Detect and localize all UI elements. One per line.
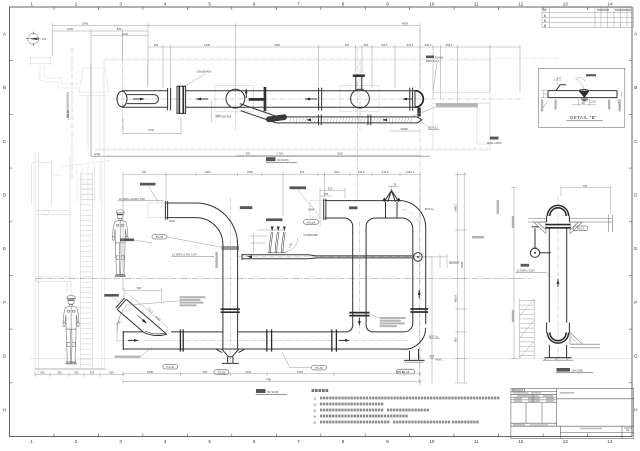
svg-text:2560: 2560 (247, 170, 253, 174)
weld leader squiggle (576, 77, 586, 89)
inclined duct dims (117, 288, 169, 342)
section top dim (561, 186, 611, 214)
flow arrows (left) (196, 98, 208, 100)
svg-text:50: 50 (582, 101, 585, 105)
left bottom dims (35, 372, 123, 376)
svg-text:5): 5) (314, 420, 317, 424)
svg-text:BOT.(L): BOT.(L) (425, 207, 434, 211)
riser circle 1 (tee down) (226, 89, 245, 108)
svg-text:8: 8 (342, 439, 345, 444)
svg-text:2: 2 (75, 2, 78, 7)
section A-A left dim line (511, 187, 517, 359)
building column lines (light) (35, 150, 104, 374)
svg-text:344.1: 344.1 (407, 43, 414, 47)
svg-text:1500: 1500 (147, 370, 153, 374)
branch stub up at circle 2 (355, 77, 357, 91)
svg-text:11: 11 (474, 439, 479, 444)
pipe body (548, 228, 550, 323)
duct A (upper left duct) (166, 202, 196, 204)
platform level line M2FL+2750 (35, 278, 530, 280)
svg-text:600: 600 (40, 371, 45, 375)
svg-text:685.6: 685.6 (397, 370, 404, 374)
PS-07 label (573, 226, 588, 231)
PS-04 label (304, 220, 319, 225)
svg-text:H: H (3, 407, 6, 412)
svg-text:1400: 1400 (204, 43, 210, 47)
svg-text:t:39x(50)4x8: t:39x(50)4x8 (196, 70, 211, 74)
svg-text:1): 1) (314, 396, 317, 400)
svg-text:1560: 1560 (297, 370, 303, 374)
svg-text:600: 600 (74, 371, 79, 375)
svg-text:(240): (240) (94, 152, 100, 156)
elevation title (256, 389, 266, 393)
svg-text:PS-06: PS-06 (315, 366, 323, 370)
svg-text:B: B (634, 85, 637, 90)
svg-text:4: 4 (164, 2, 167, 7)
section pipe centerline (557, 196, 559, 364)
svg-text:430.4: 430.4 (425, 43, 432, 47)
svg-text:630: 630 (90, 371, 95, 375)
revision table (542, 8, 634, 28)
svg-text:PS-02: PS-02 (167, 365, 175, 369)
existing equipment outline (light) plan (95, 60, 490, 150)
riser B (412, 229, 414, 324)
return flex duct (240, 104, 418, 117)
plan view title (266, 157, 276, 161)
pipe stand (548, 345, 550, 358)
M2FL level mark (430, 356, 434, 359)
flow arrow right (133, 98, 143, 100)
standpipe level label (490, 137, 499, 140)
svg-text:+786.38: +786.38 (66, 110, 70, 120)
svg-text:(S=1/20): (S=1/20) (277, 158, 289, 162)
svg-text:M2FL+2250: M2FL+2250 (487, 141, 502, 145)
labels duct A (140, 183, 156, 186)
svg-text:600: 600 (203, 370, 208, 374)
bottom elbow B (404, 323, 413, 332)
svg-text:300: 300 (154, 43, 159, 47)
D-shaped end cap (dark) (415, 91, 423, 108)
support beams top (528, 215, 613, 233)
special notes heading (312, 389, 329, 392)
duct B (upper right duct) (325, 200, 402, 202)
svg-text:685.8: 685.8 (454, 295, 458, 302)
svg-text:3): 3) (314, 408, 317, 412)
small existing pipe w/ valve (light) (42, 276, 71, 278)
gasket note block left (180, 296, 206, 298)
svg-text:1500: 1500 (148, 128, 154, 132)
svg-text:#416.6x2.0: #416.6x2.0 (426, 59, 440, 63)
svg-text:722.6: 722.6 (381, 43, 388, 47)
svg-text:M2FL: M2FL (436, 357, 443, 361)
svg-text:3: 3 (119, 2, 122, 7)
small note under duct (115, 356, 141, 358)
gasket joint (dark) (177, 86, 186, 113)
svg-text:450A: 450A (169, 219, 175, 223)
svg-text:BOT.(L): BOT.(L) (429, 126, 438, 130)
svg-text:600: 600 (109, 371, 114, 375)
svg-text:E: E (3, 246, 6, 251)
existing fan housings (light) around risers (215, 86, 254, 112)
svg-text:2: 2 (75, 439, 78, 444)
svg-text:1700: 1700 (277, 151, 283, 155)
svg-text:300: 300 (142, 170, 147, 174)
svg-text:4): 4) (314, 414, 317, 418)
svg-text:13: 13 (563, 439, 569, 444)
rotated feeder note (smudge) (67, 92, 69, 118)
upper small existing pipe (light) (35, 210, 70, 212)
svg-text:F: F (634, 300, 637, 305)
svg-text:(S=1/20): (S=1/20) (572, 368, 584, 372)
elbow B (402, 201, 426, 229)
plan main duct centerline (112, 98, 524, 100)
svg-text:300: 300 (345, 43, 350, 47)
section ladder (520, 299, 535, 359)
svg-text:500: 500 (300, 170, 305, 174)
svg-text:1005: 1005 (67, 27, 73, 31)
svg-text:6: 6 (253, 2, 256, 7)
duct B light stub (310, 200, 323, 202)
section title (557, 368, 571, 372)
return duct flange ticks (318, 115, 320, 126)
detail dims (541, 78, 622, 108)
pipe top 180 bend (dark) (547, 205, 570, 216)
svg-text:2.5/2: 2.5/2 (590, 100, 596, 104)
plan area lower boundary lines (95, 147, 490, 149)
svg-text:450A: 450A (308, 208, 314, 212)
svg-text:2350: 2350 (274, 43, 280, 47)
svg-text:4500: 4500 (460, 262, 464, 268)
svg-text:14: 14 (607, 439, 613, 444)
main lower duct (118, 339, 408, 341)
svg-text:5345: 5345 (82, 21, 88, 25)
svg-text:"B": "B" (393, 183, 397, 187)
worker figure upper (on platform) (112, 210, 128, 277)
svg-text:4600: 4600 (402, 21, 408, 25)
svg-text:840: 840 (117, 27, 122, 31)
svg-text:4: 4 (164, 439, 167, 444)
hoses (269, 232, 271, 253)
BOT.(L) leader (422, 122, 429, 127)
flex corrugation ticks (290, 118, 412, 123)
svg-text:1.5: 1.5 (557, 76, 561, 80)
plan duct end cap ellipse (117, 91, 127, 106)
gusset brackets top (534, 222, 547, 234)
svg-text:8: 8 (342, 2, 345, 7)
existing truss lower-left (light) (50, 161, 110, 204)
level label (521, 264, 530, 267)
svg-text:CH250x480: CH250x480 (304, 233, 319, 237)
worker figure lower (on ground) (63, 295, 79, 364)
ground line under figure (35, 368, 106, 370)
svg-text:1400: 1400 (205, 170, 211, 174)
dark flex sleeve (266, 114, 288, 123)
svg-text:10: 10 (429, 2, 435, 7)
return duct arrows (382, 119, 387, 122)
svg-text:105: 105 (324, 192, 329, 196)
weld detail plate (548, 85, 617, 98)
svg-text:1: 1 (30, 2, 33, 7)
svg-text:BOT.(L): BOT.(L) (429, 334, 438, 338)
svg-text:E: E (634, 246, 637, 251)
svg-text:12: 12 (518, 439, 524, 444)
elbow support (409, 351, 411, 360)
svg-text:7: 7 (297, 2, 300, 7)
PS-08 label (397, 369, 415, 374)
svg-text:12 M2FL+4228.6 TOP: 12 M2FL+4228.6 TOP (119, 197, 146, 201)
svg-text:500 600: 500 600 (222, 114, 232, 118)
plan inlet duct section (122, 90, 168, 92)
svg-text:PS-03: PS-03 (156, 235, 164, 239)
existing fan unit (light) upper-left (29, 55, 109, 150)
hose end ring (414, 253, 423, 262)
title block texts (smudges) (513, 389, 523, 391)
flange pair (167, 88, 169, 110)
backing strip marks (581, 98, 588, 100)
svg-text:805: 805 (454, 337, 458, 342)
DETAIL B box (539, 68, 625, 127)
svg-text:D2400: D2400 (435, 55, 443, 59)
svg-text:G: G (634, 354, 638, 359)
bottom dim lines of elevation (123, 372, 420, 384)
elevation top dim line (123, 172, 420, 290)
svg-text:13: 13 (563, 2, 569, 7)
ground line (light) (30, 358, 630, 360)
svg-text:(S=1/20): (S=1/20) (267, 390, 279, 394)
labels with leaders (plan) (183, 74, 205, 87)
svg-text:760: 760 (57, 371, 62, 375)
hose dim cluster (250, 230, 285, 253)
right tall dim lines (432, 172, 467, 383)
svg-text:PS-04: PS-04 (307, 220, 315, 224)
40A supply pipe (thin) (236, 256, 432, 258)
svg-text:320: 320 (328, 187, 333, 191)
drain pot under riser A (222, 349, 239, 356)
duct flange pairs (dark) (179, 329, 181, 351)
flange pairs on plan duct (318, 88, 320, 111)
existing tank lower-left (light) (32, 162, 52, 206)
PS-02 PS-05 PS-06 labels (163, 364, 178, 369)
bell mouth (348, 326, 353, 331)
svg-text:5: 5 (208, 439, 211, 444)
svg-text:500: 500 (137, 286, 142, 290)
svg-text:1221.1: 1221.1 (406, 170, 415, 174)
svg-text:790: 790 (583, 184, 588, 188)
svg-text:600: 600 (364, 43, 369, 47)
weld bead (dark) (578, 91, 589, 98)
branch arrow up (245, 91, 247, 98)
access ladder (light) (81, 172, 93, 369)
svg-text:3200: 3200 (337, 151, 343, 155)
blind flange stub (dark) (249, 98, 264, 101)
svg-text:10000: 10000 (400, 127, 408, 131)
duct A light stub (148, 202, 165, 204)
svg-text:7: 7 (297, 439, 300, 444)
svg-text:11: 11 (474, 2, 479, 7)
svg-text:9: 9 (386, 439, 389, 444)
valve handwheel (530, 248, 539, 257)
duct cap note (smudge) (436, 103, 478, 106)
weld points B tent on duct B (384, 191, 399, 202)
plan main duct body (186, 90, 415, 92)
svg-text:1: 1 (30, 439, 33, 444)
small dims above hoses (320, 188, 345, 226)
svg-text:P.N: P.N (42, 37, 46, 41)
svg-text:2011: 2011 (334, 170, 340, 174)
gasket note block right (380, 317, 406, 319)
svg-text:1460.2: 1460.2 (454, 203, 458, 212)
svg-text:3: 3 (119, 439, 122, 444)
svg-text:PS-07: PS-07 (577, 227, 585, 231)
flange below bend (dark) (545, 224, 570, 226)
title block (511, 389, 634, 439)
north arrow symbol (28, 33, 39, 44)
small supply label left of riser A (120, 239, 134, 242)
hose angle arc (286, 237, 298, 252)
svg-text:342.9: 342.9 (382, 170, 389, 174)
svg-text:7780: 7780 (265, 377, 271, 381)
riser B flange pair (dark) (410, 308, 428, 310)
svg-text:500: 500 (246, 151, 251, 155)
inclined duct (116, 298, 167, 336)
svg-text:342.9: 342.9 (358, 170, 365, 174)
drop duct flange (dark) (349, 312, 369, 314)
svg-text:14: 14 (607, 2, 613, 7)
riser circle 2 (351, 89, 370, 108)
svg-text:H: H (634, 407, 637, 412)
svg-text:3142: 3142 (245, 370, 251, 374)
svg-text:2): 2) (314, 402, 317, 406)
svg-text:6: 6 (253, 439, 256, 444)
svg-text:DETAIL "B": DETAIL "B" (570, 115, 597, 120)
inner silencer capsule (127, 95, 159, 104)
pipe bottom 180 bend (dark) (547, 333, 570, 344)
svg-text:9: 9 (386, 2, 389, 7)
svg-text:G: G (3, 354, 7, 359)
dark stub from cap to return duct (417, 108, 420, 117)
svg-text:5: 5 (208, 2, 211, 7)
svg-text:10: 10 (429, 439, 435, 444)
plan dimension lines (53, 23, 521, 156)
riser A centerline (229, 198, 231, 368)
upper label with leader (290, 186, 307, 189)
PS-03 label (152, 234, 167, 239)
svg-text:12 M2FL+2750 COP: 12 M2FL+2750 COP (172, 252, 197, 256)
tee transition to drop duct (346, 218, 353, 227)
svg-text:B: B (3, 85, 6, 90)
riser A flange pair (dark) (221, 308, 240, 310)
svg-text:F: F (3, 300, 6, 305)
svg-text:A3: A3 (626, 428, 630, 432)
riser A (222, 245, 224, 350)
elbow A (196, 203, 238, 245)
svg-text:12: 12 (518, 2, 524, 7)
building grid chain lines (72, 28, 420, 385)
drop duct (352, 227, 354, 327)
svg-text:1200: 1200 (122, 32, 128, 36)
gusset bracket bottom (570, 333, 600, 348)
svg-text:966.4: 966.4 (446, 43, 453, 47)
svg-text:12 M2FL+2250: 12 M2FL+2250 (517, 268, 536, 272)
